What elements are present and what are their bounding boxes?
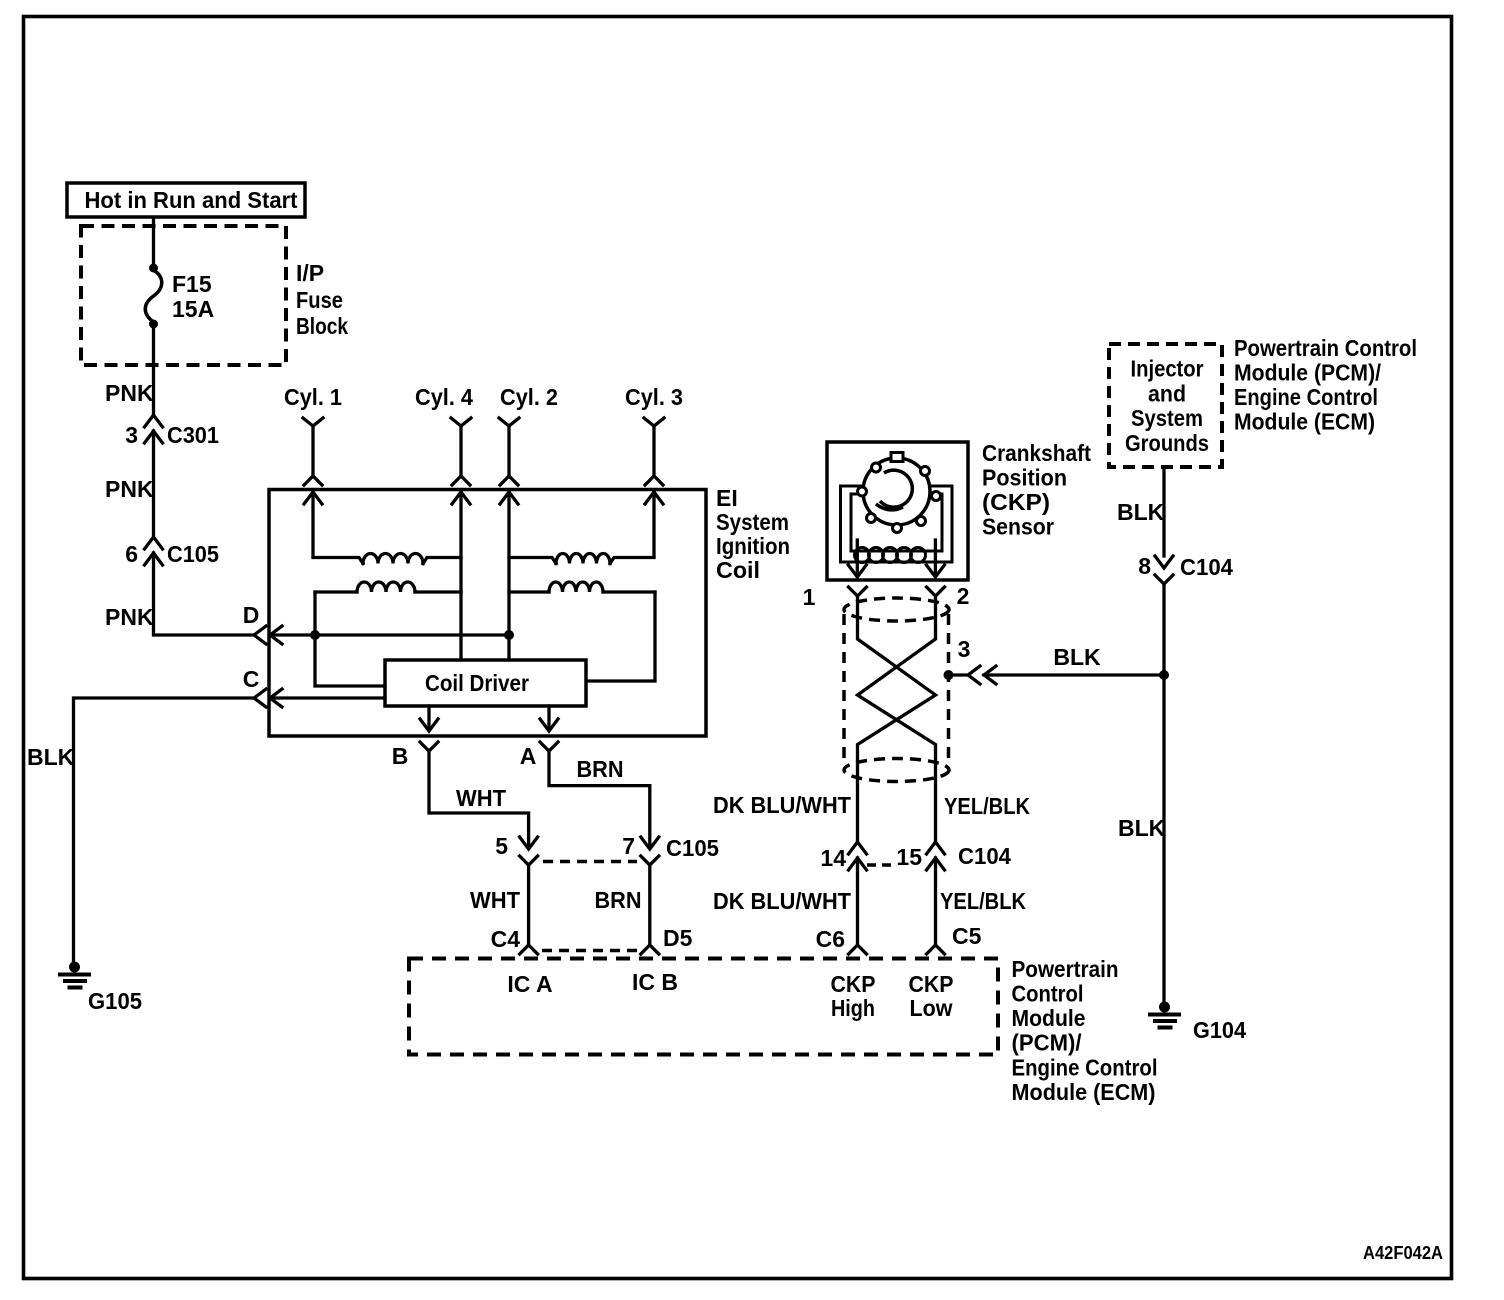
- twisted pair shield bottom ellipse: [844, 759, 949, 782]
- svg-text:Fuse: Fuse: [296, 287, 343, 313]
- svg-text:Coil Driver: Coil Driver: [425, 670, 529, 696]
- svg-text:2: 2: [957, 583, 970, 609]
- svg-text:PNK: PNK: [105, 380, 154, 406]
- CKP reluctor wheel: [858, 453, 941, 533]
- svg-text:Module: Module: [1012, 1005, 1086, 1031]
- wire WHT C105 to PCM C4: [470, 865, 529, 945]
- svg-text:WHT: WHT: [470, 887, 520, 913]
- node Hot in Run and Start: [67, 183, 305, 217]
- wire PNK C301 to C105: [105, 431, 154, 537]
- connector C104 pin 8: [1138, 553, 1233, 584]
- connector C105 pin 5: [495, 833, 537, 865]
- svg-text:High: High: [831, 995, 875, 1021]
- wire DK BLU/WHT label: [713, 792, 851, 818]
- connector C301 pin 3: [125, 415, 219, 448]
- terminal 2 below sensor: [927, 583, 970, 609]
- wire Cyl3 drop to secondary: [652, 492, 655, 556]
- terminal 3 shield connector: [949, 636, 997, 684]
- svg-text:Control: Control: [1012, 981, 1084, 1007]
- svg-text:C301: C301: [167, 422, 219, 448]
- svg-text:15A: 15A: [172, 296, 214, 322]
- Injector and System Grounds dashed box: [1109, 344, 1222, 467]
- twisted pair wire right: [858, 596, 936, 842]
- fuse F15 15A: [145, 264, 214, 329]
- wire WHT from B to C105 pin 5: [429, 751, 529, 848]
- svg-text:D5: D5: [663, 925, 693, 951]
- wire primary-left leg to coil driver: [315, 592, 385, 686]
- wire DK BLU/WHT to PCM C6: [713, 858, 858, 945]
- CKP sensor body rectangles: [841, 486, 953, 562]
- terminal Cyl. 1: [284, 384, 342, 504]
- svg-text:PNK: PNK: [105, 604, 154, 630]
- ground G105: [58, 962, 142, 1015]
- junction node shield drain: [944, 670, 954, 680]
- svg-text:Low: Low: [910, 995, 953, 1021]
- connector C105 pin 6: [125, 537, 219, 567]
- wire BRN C105 to PCM D5: [595, 865, 650, 945]
- svg-text:Module (ECM): Module (ECM): [1012, 1079, 1156, 1105]
- wire from Hot box into fuse block: [152, 219, 155, 266]
- svg-text:Grounds: Grounds: [1125, 430, 1209, 456]
- twisted pair shield top ellipse: [844, 598, 949, 621]
- svg-text:PNK: PNK: [105, 476, 154, 502]
- PCM/ECM label top right: [1234, 335, 1417, 435]
- junction node on D bus left: [310, 630, 320, 640]
- svg-text:Module (PCM)/: Module (PCM)/: [1234, 360, 1382, 386]
- svg-text:8: 8: [1138, 553, 1151, 579]
- wire bus from terminal D: [270, 633, 509, 636]
- svg-text:BLK: BLK: [27, 744, 75, 770]
- svg-text:(PCM)/: (PCM)/: [1012, 1030, 1083, 1056]
- drawing number A42F042A: [1363, 1243, 1443, 1263]
- svg-text:3: 3: [958, 636, 971, 662]
- wire BLK from terminal 3 to ground bus: [984, 644, 1164, 675]
- svg-text:F15: F15: [172, 271, 212, 297]
- svg-text:Coil: Coil: [716, 557, 760, 583]
- svg-text:G105: G105: [88, 988, 142, 1014]
- junction node on D bus right: [504, 630, 514, 640]
- svg-text:14: 14: [820, 845, 846, 871]
- svg-text:6: 6: [125, 541, 138, 567]
- svg-text:Sensor: Sensor: [982, 514, 1054, 540]
- svg-text:C5: C5: [952, 923, 982, 949]
- terminal D5 at PCM: [641, 925, 693, 954]
- svg-text:5: 5: [495, 833, 508, 859]
- svg-text:Cyl. 1: Cyl. 1: [284, 384, 342, 410]
- wire coil driver output A with arrow: [540, 706, 558, 731]
- PCM/ECM dashed box: [409, 959, 998, 1055]
- svg-text:DK BLU/WHT: DK BLU/WHT: [713, 792, 851, 818]
- wire YEL/BLK to PCM C5: [936, 858, 1027, 945]
- terminal D of ignition coil: [243, 602, 282, 644]
- svg-text:A42F042A: A42F042A: [1363, 1243, 1443, 1263]
- CKP sensor box: [827, 440, 1091, 580]
- svg-text:IC B: IC B: [632, 969, 678, 995]
- wire BRN from A to C105 pin 7: [549, 751, 650, 848]
- svg-text:BRN: BRN: [595, 887, 642, 913]
- terminal 1 below sensor: [803, 584, 867, 610]
- wire from terminal C to coil driver: [270, 696, 385, 699]
- coil primary left: [315, 582, 461, 592]
- junction node ground bus: [1159, 670, 1169, 680]
- wire coil driver output B with arrow: [420, 706, 438, 731]
- dashed connector line C105: [543, 860, 637, 864]
- terminal B below coil box: [392, 742, 438, 769]
- svg-text:CKP: CKP: [831, 971, 876, 997]
- dashed connector line C104: [867, 863, 895, 867]
- wire BLK from terminal C to ground: [27, 698, 254, 963]
- svg-text:C6: C6: [816, 926, 845, 952]
- terminal C5 at PCM: [927, 923, 982, 954]
- svg-text:Cyl. 2: Cyl. 2: [500, 384, 558, 410]
- CKP sensor output arrows: [848, 540, 944, 577]
- ground G104: [1148, 1002, 1246, 1044]
- wire primary-right leg to coil driver: [588, 592, 655, 681]
- coil secondary left (Cyl1-Cyl4): [313, 554, 461, 564]
- svg-text:Position: Position: [982, 465, 1067, 491]
- svg-text:Powertrain Control: Powertrain Control: [1234, 335, 1417, 361]
- svg-text:and: and: [1148, 381, 1186, 407]
- twisted pair shield sides: [844, 614, 949, 766]
- svg-text:YEL/BLK: YEL/BLK: [940, 888, 1026, 914]
- svg-text:15: 15: [896, 844, 922, 870]
- svg-text:IC A: IC A: [507, 971, 552, 997]
- svg-text:C4: C4: [491, 926, 521, 952]
- svg-text:C104: C104: [958, 843, 1011, 869]
- wire Cyl4 drop to coil driver: [459, 492, 462, 660]
- svg-text:Engine Control: Engine Control: [1234, 384, 1378, 410]
- dashed connector line C4-D5: [542, 949, 638, 953]
- svg-text:Powertrain: Powertrain: [1012, 956, 1119, 982]
- wire YEL/BLK label: [944, 793, 1030, 819]
- svg-text:I/P: I/P: [296, 260, 324, 286]
- wire PNK fuse to C301: [105, 326, 154, 415]
- EI System Ignition Coil box: [269, 485, 790, 736]
- svg-text:BLK: BLK: [1118, 815, 1166, 841]
- svg-text:Block: Block: [296, 313, 348, 339]
- terminal Cyl. 3: [625, 384, 683, 504]
- wire BLK from grounds box: [1117, 467, 1165, 556]
- coil driver U1: [385, 660, 586, 706]
- svg-text:C104: C104: [1180, 554, 1233, 580]
- svg-text:Ignition: Ignition: [716, 533, 790, 559]
- terminal C4 at PCM: [491, 926, 538, 954]
- svg-text:BRN: BRN: [577, 756, 624, 782]
- svg-text:B: B: [392, 743, 409, 769]
- terminal Cyl. 2: [499, 384, 558, 504]
- coil secondary right (Cyl2-Cyl3): [509, 554, 654, 564]
- svg-text:D: D: [243, 602, 260, 628]
- connector C105 pin 7: [622, 833, 719, 865]
- terminal C of ignition coil: [243, 666, 282, 707]
- svg-text:DK BLU/WHT: DK BLU/WHT: [713, 888, 851, 914]
- svg-text:Injector: Injector: [1131, 356, 1204, 382]
- svg-text:A: A: [520, 743, 537, 769]
- svg-text:EI: EI: [716, 485, 738, 511]
- PCM/ECM label bottom: [1012, 956, 1158, 1105]
- coil primary right: [509, 582, 655, 592]
- svg-text:C: C: [243, 666, 260, 692]
- svg-text:G104: G104: [1193, 1017, 1246, 1043]
- terminal A below coil box: [520, 742, 558, 769]
- svg-text:Module (ECM): Module (ECM): [1234, 409, 1375, 435]
- svg-text:Engine Control: Engine Control: [1012, 1055, 1158, 1081]
- svg-text:BLK: BLK: [1117, 499, 1165, 525]
- svg-text:(CKP): (CKP): [982, 489, 1050, 515]
- svg-text:1: 1: [803, 584, 816, 610]
- svg-text:C105: C105: [666, 835, 719, 861]
- svg-text:YEL/BLK: YEL/BLK: [944, 793, 1030, 819]
- connector C104 pin 14: [820, 842, 866, 871]
- connector C104 pin 15: [896, 842, 1011, 870]
- svg-text:System: System: [716, 509, 789, 535]
- svg-text:CKP: CKP: [909, 971, 954, 997]
- wire BLK ground bus: [1118, 584, 1166, 1003]
- wire Cyl1 drop to secondary: [311, 492, 314, 556]
- svg-text:3: 3: [125, 422, 138, 448]
- svg-text:7: 7: [622, 833, 635, 859]
- wire PNK C105 to terminal D: [105, 553, 254, 635]
- svg-text:Cyl. 4: Cyl. 4: [415, 384, 473, 410]
- svg-text:C105: C105: [167, 541, 219, 567]
- wire Cyl2 drop to coil driver: [507, 492, 510, 660]
- I/P Fuse Block dashed box: [81, 226, 348, 365]
- svg-text:BLK: BLK: [1053, 644, 1101, 670]
- terminal Cyl. 4: [415, 384, 473, 504]
- svg-text:Cyl. 3: Cyl. 3: [625, 384, 683, 410]
- terminal C6 at PCM: [816, 926, 867, 954]
- svg-text:Hot in Run and Start: Hot in Run and Start: [85, 187, 298, 213]
- svg-text:Crankshaft: Crankshaft: [982, 440, 1091, 466]
- twisted pair wire left: [858, 596, 936, 842]
- svg-text:System: System: [1131, 405, 1203, 431]
- CKP pickup coil winding: [855, 548, 926, 563]
- svg-text:WHT: WHT: [456, 785, 506, 811]
